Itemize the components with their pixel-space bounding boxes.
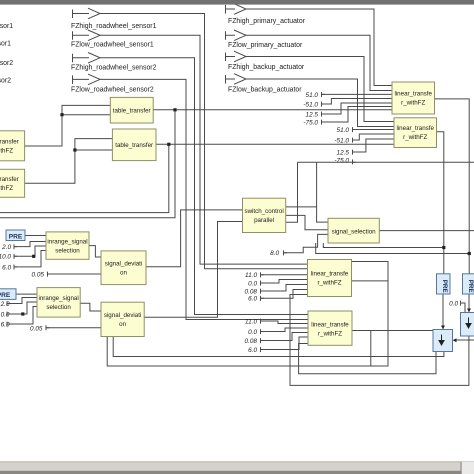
svg-text:roadwheel_sensor1: roadwheel_sensor1 (0, 23, 13, 30)
svg-text:11.0: 11.0 (245, 272, 257, 279)
wire: const 12.5 g1 to lt1 (322, 103, 393, 114)
svg-text:12.5: 12.5 (306, 111, 319, 118)
svg-text:0.05: 0.05 (32, 272, 45, 279)
const 12.5 g2 (337, 149, 356, 156)
const 0.08 lt3 (245, 288, 264, 295)
const 10.0 g1 (0, 254, 17, 261)
wire: const 0.0 lt3 (261, 280, 308, 284)
svg-text:-51.0: -51.0 (303, 101, 318, 108)
wire: scp output2 to ss input2 (286, 215, 328, 229)
input port arrow FZhigh_primary_actuator (226, 4, 247, 15)
input port arrow FZlow_roadwheel_sensor2 (73, 74, 101, 85)
svg-text:2.0: 2.0 (0, 301, 10, 308)
wire: FZlow_backup_actuator to lt2 (246, 79, 394, 127)
svg-text:r_withFZ: r_withFZ (318, 331, 342, 338)
wire: scp output1 to ss input1 (286, 206, 317, 208)
const 6.0 lt3 (248, 296, 264, 303)
const -75.0 g2 (334, 158, 356, 165)
cut label sensor1 low at left edge (0, 41, 11, 48)
svg-text:51.0: 51.0 (306, 92, 319, 99)
const 2.0 g1 (1, 244, 17, 251)
const 6.0 g2 (1, 322, 10, 329)
wire: const 12.5 g2 to lt2 (353, 139, 395, 152)
node: junction vPRE1 feed (442, 246, 445, 249)
wire: lt4 output branch down to sd2-B line (370, 331, 372, 367)
svg-text:r_withFZ: r_withFZ (403, 134, 427, 141)
const 2.0 g2 (0, 301, 10, 308)
wire: block B output to junction x75 (25, 139, 113, 184)
wire: ss wrap to vPRE1 vertical (323, 243, 444, 248)
svg-text:-75.0: -75.0 (334, 158, 349, 165)
svg-text:2.0: 2.0 (1, 244, 11, 251)
wire: const 0.08 lt4 (261, 333, 309, 341)
input port arrow FZhigh_roadwheel_sensor2 (73, 53, 101, 64)
const 0.08 lt4 (245, 338, 264, 345)
wire: off-screen right into swL right input (454, 339, 474, 341)
block PRE1 (6, 230, 25, 241)
wire: const 6.0 g1 to irs1 (14, 251, 46, 267)
const 10.0 g2 (0, 312, 10, 319)
wire: sensor2 low (100, 79, 308, 319)
wire: lt2 output to vPRE1 feed vertical (437, 132, 444, 274)
svg-text:adwheel_sensor1: adwheel_sensor1 (0, 41, 11, 48)
wire: const 11.0 lt3 (261, 274, 308, 276)
svg-text:FZlow_roadwheel_sensor2: FZlow_roadwheel_sensor2 (71, 86, 154, 93)
const 0.0 lt3 (248, 280, 264, 287)
port arrow into swL right (453, 338, 457, 342)
window chrome: bottom scrollbar band (0, 461, 474, 474)
const 0.0 swR (449, 300, 463, 307)
label FZlow_roadwheel_sensor1 (71, 41, 154, 48)
wire: const 6.0 g2 to irs2 (7, 307, 37, 325)
wire: FZhigh_primary_actuator to lt1 (246, 9, 392, 86)
wire: FZhigh_backup_actuator to lt2 (246, 57, 394, 122)
svg-text:0.0: 0.0 (248, 329, 257, 336)
svg-text:on: on (119, 321, 126, 328)
svg-text:r_withFZ: r_withFZ (317, 280, 341, 287)
wire: const 2.0 g2 to irs2 (7, 298, 37, 304)
wire: swL output loop back into lt4 (299, 344, 436, 374)
node: junction tt1 (173, 108, 176, 111)
wire: sd2 bottom port A to swR left (113, 337, 444, 357)
node: junction 10.0 g2 (21, 312, 24, 315)
wire: sensor1 high from arrow to vertical drop into lt3 (100, 14, 308, 269)
svg-text:selection: selection (55, 248, 80, 255)
block B linear_transfer withFZ (cut at left edge) (0, 169, 25, 197)
svg-text:10.0: 10.0 (0, 254, 11, 261)
svg-text:FZlow_backup_actuator: FZlow_backup_actuator (228, 86, 302, 93)
block vPRE1 (rotated PRE) (437, 274, 451, 294)
svg-text:FZhigh_primary_actuator: FZhigh_primary_actuator (228, 18, 306, 25)
wire: PRE1 output to irs1 (25, 235, 46, 237)
node: junction vPRE2 feed (468, 252, 471, 255)
svg-text:table_transfer: table_transfer (115, 142, 153, 149)
block lt4 linear_transfer withFZ (308, 311, 352, 345)
wire: const 6.0 lt4 (261, 337, 309, 350)
wire: tt2 output long run to lt2 (156, 143, 394, 145)
const 8.0 (270, 250, 287, 257)
const -75.0 g1 (303, 119, 325, 126)
wire: branch of -75 line down into ss input1 (317, 162, 328, 222)
wire: sensor2 high (100, 58, 308, 315)
svg-text:11.0: 11.0 (245, 318, 257, 325)
wire: lt3 output joining vertical to sd2 (352, 280, 389, 282)
svg-text:linear_transfe: linear_transfe (394, 91, 432, 98)
wire: const 0.05 g2 to sd2 (46, 327, 101, 329)
label FZhigh_roadwheel_sensor1 (71, 23, 157, 30)
wire: tt1 output long run to lt1 (153, 109, 392, 111)
block irs2 inrange_signal selection (37, 288, 80, 318)
svg-text:PRE: PRE (441, 280, 448, 293)
svg-text:FZhigh_roadwheel_sensor1: FZhigh_roadwheel_sensor1 (71, 23, 157, 30)
wire: lt1 output to vPRE2 feed vertical (435, 99, 470, 274)
svg-text:PRE: PRE (467, 280, 474, 293)
cut label sensor2 high at left edge (0, 60, 13, 67)
svg-text:FZhigh_backup_actuator: FZhigh_backup_actuator (228, 64, 305, 71)
svg-text:FZlow_roadwheel_sensor1: FZlow_roadwheel_sensor1 (71, 41, 154, 48)
const 51.0 g1 (306, 92, 325, 99)
input port arrow FZhigh_backup_actuator (226, 51, 247, 62)
wire: vPRE2 output into swR top (468, 294, 470, 313)
svg-text:0.08: 0.08 (245, 288, 258, 295)
svg-text:r_withFZ: r_withFZ (0, 185, 13, 192)
block tt1 table_transfer (110, 97, 153, 123)
const 11.0 lt3 (245, 272, 264, 279)
label FZlow_roadwheel_sensor2 (71, 86, 154, 93)
svg-text:signal_deviati: signal_deviati (104, 312, 142, 319)
block ss signal_selection (328, 218, 379, 243)
cut label sensor1 high at left edge (0, 23, 13, 30)
window chrome: top dark bar (0, 0, 474, 5)
svg-text:table_transfer: table_transfer (113, 108, 151, 115)
block PRE2 (cut at left edge) (0, 289, 16, 300)
svg-text:adwheel_sensor2: adwheel_sensor2 (0, 78, 11, 85)
input port arrow FZlow_primary_actuator (226, 30, 247, 41)
node: junction tt2 (167, 143, 170, 146)
node: junction A (60, 113, 63, 116)
wire: sensor1 low (100, 35, 308, 264)
svg-text:0.05: 0.05 (30, 325, 43, 332)
wire: sd2 output up to scp input2 (144, 222, 242, 318)
svg-text:r_withFZ: r_withFZ (0, 148, 13, 155)
wire: const -51.0 g2 to lt2 (353, 134, 395, 140)
block swR switch with down arrow (cut at right edge) (461, 313, 474, 337)
const -51.0 g2 (334, 137, 356, 144)
wire: junction x62 branch to tt1 lower input (62, 114, 110, 116)
wire: const 2.0 g1 to irs1 (14, 242, 46, 247)
block lt3 linear_transfer withFZ (308, 260, 352, 297)
node: junction B (73, 148, 76, 151)
svg-text:roadwheel_sensor2: roadwheel_sensor2 (0, 60, 13, 67)
svg-text:inrange_signal: inrange_signal (38, 295, 78, 302)
wire: const 51.0 g2 to lt2 (353, 129, 395, 131)
label FZhigh_primary_actuator (228, 18, 306, 25)
svg-text:linear_transfer: linear_transfer (0, 176, 19, 183)
wire: PRE2 output to irs2 (16, 293, 37, 295)
block tt2 table_transfer (112, 129, 156, 161)
wire: ss output to right edge (379, 230, 474, 232)
svg-text:51.0: 51.0 (337, 127, 350, 134)
wire: FZlow_primary_actuator to lt1 (246, 35, 392, 90)
wire: junction x75 branch to tt2 lower input (75, 149, 113, 151)
svg-text:12.5: 12.5 (337, 149, 350, 156)
const 0.05 g2 (30, 325, 49, 332)
block vPRE2 (rotated PRE, cut at right edge) (463, 274, 474, 294)
wire: const -75.0 g1 to lt1 (322, 107, 393, 123)
block swL switch with down arrow (433, 330, 453, 352)
svg-text:signal_selection: signal_selection (332, 229, 377, 236)
svg-text:inrange_signal: inrange_signal (47, 239, 87, 246)
svg-text:r_withFZ: r_withFZ (401, 100, 425, 107)
wire: irs1 output to sd1 (89, 246, 101, 257)
const 0.0 lt4 (248, 329, 264, 336)
svg-text:parallel: parallel (254, 217, 274, 224)
block A linear_transfer withFZ (cut at left edge) (0, 131, 25, 161)
svg-text:6.0: 6.0 (2, 264, 11, 271)
cut label sensor2 low at left edge (0, 78, 11, 85)
wire: const 0.05 g1 to sd1 (48, 273, 102, 275)
wire: vPRE1 output into swL top (442, 294, 444, 330)
const 12.5 g1 (306, 111, 325, 118)
const 6.0 lt4 (248, 347, 264, 354)
svg-text:on: on (120, 270, 127, 277)
const 0.05 g1 (32, 272, 51, 279)
input port arrow FZlow_backup_actuator (226, 74, 247, 85)
svg-text:0.0: 0.0 (449, 300, 458, 307)
wire: const 51.0 g1 to lt1 (322, 93, 393, 95)
wire: -75.0 g2 branch down into scp right side (286, 162, 298, 222)
svg-text:PRE: PRE (9, 233, 23, 240)
label FZlow_primary_actuator (228, 42, 303, 49)
block lt1 linear_transfer withFZ (392, 82, 435, 114)
wire: tt2 branch down to left exit (0, 144, 169, 212)
wire: irs2 output to sd2 (80, 303, 101, 311)
wire: const 10.0 g1 to irs1 (14, 246, 46, 256)
svg-text:-51.0: -51.0 (334, 137, 349, 144)
svg-text:linear_transfe: linear_transfe (396, 125, 434, 132)
const 51.0 g2 (337, 127, 356, 134)
svg-text:PRE: PRE (0, 292, 11, 299)
svg-text:FZlow_primary_actuator: FZlow_primary_actuator (228, 42, 303, 49)
wire: block A output to junction x62 (25, 105, 111, 146)
svg-text:linear_transfe: linear_transfe (311, 271, 349, 278)
wire: const 10.0 g2 to irs2 (7, 302, 37, 314)
svg-text:6.0: 6.0 (248, 296, 257, 303)
port arrow into swL top (441, 326, 445, 330)
svg-text:signal_deviati: signal_deviati (105, 261, 143, 268)
svg-text:switch_control: switch_control (244, 208, 283, 215)
block lt2 linear_transfer withFZ (394, 118, 437, 148)
svg-text:10.0: 10.0 (0, 312, 10, 319)
node: junction 10.0 (32, 255, 35, 258)
svg-text:6.0: 6.0 (248, 347, 257, 354)
svg-text:6.0: 6.0 (1, 322, 10, 329)
wire: tt1 branch down to left exit (0, 110, 175, 218)
label FZlow_backup_actuator (228, 86, 302, 93)
wire: const 11.0 lt4 (261, 321, 309, 324)
wire: const 6.0 lt3 (261, 290, 308, 299)
wire: sd1 output up to scp input1 (146, 210, 243, 267)
const -51.0 g1 (303, 101, 325, 108)
input port arrow FZhigh_roadwheel_sensor1 (73, 8, 101, 19)
wire: const 0.0 lt4 (261, 328, 309, 332)
block irs1 inrange_signal selection (46, 232, 89, 259)
input port arrow FZlow_roadwheel_sensor1 (73, 30, 101, 41)
wire: const -51.0 g1 to lt1 (322, 99, 393, 105)
wire: const 0.0 into swR top (461, 303, 466, 313)
svg-text:linear_transfe: linear_transfe (311, 322, 349, 329)
wire: const -75.0 g2 long run to right edge (298, 161, 474, 163)
wire: swR output loop back into lt3 (290, 295, 469, 386)
svg-text:0.0: 0.0 (248, 280, 257, 287)
block sd1 signal_deviation (101, 251, 146, 285)
wire: lt4 output to mid vertical (352, 330, 433, 332)
block sd2 signal_deviation (101, 302, 144, 336)
svg-text:-75.0: -75.0 (303, 119, 318, 126)
const 6.0 g1 (2, 264, 17, 271)
svg-text:8.0: 8.0 (270, 250, 279, 257)
wire: const 8.0 staircase to ss input3 (284, 234, 329, 252)
svg-text:selection: selection (46, 304, 71, 311)
svg-text:FZhigh_roadwheel_sensor2: FZhigh_roadwheel_sensor2 (71, 64, 157, 71)
label FZhigh_backup_actuator (228, 64, 305, 71)
wire: sd2 bottom port B to swL right via edge run (107, 262, 388, 367)
wire: const 0.08 lt3 (261, 285, 308, 292)
svg-text:0.08: 0.08 (245, 338, 258, 345)
const 11.0 lt4 (245, 318, 264, 325)
label FZhigh_roadwheel_sensor2 (71, 64, 157, 71)
port arrow into swR top (467, 309, 471, 313)
block scp switch_control parallel (243, 198, 286, 232)
svg-text:linear_transfer: linear_transfer (0, 139, 19, 146)
wire: ss wrap to vPRE2 vertical (316, 243, 470, 254)
